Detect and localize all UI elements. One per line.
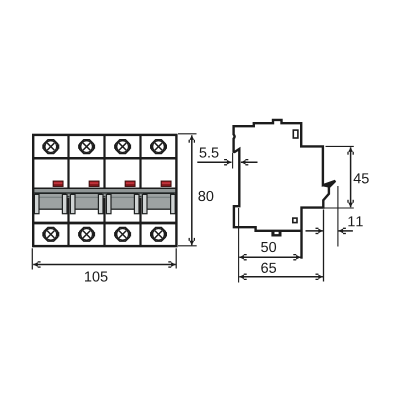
red indicator M3 [125, 181, 135, 186]
dimension 80 extension top [178, 133, 197, 135]
dimension 105 label [85, 272, 91, 282]
dimension 65 label [261, 263, 268, 273]
dimension 50 label [261, 242, 268, 252]
dimension 5.5 extension [232, 153, 234, 169]
front view outer box [33, 135, 176, 246]
post M3 right [134, 194, 139, 213]
module divider 3 [139, 134, 141, 246]
dimension 11 extension right [337, 186, 339, 247]
dimension 11 left line [306, 230, 323, 232]
dimension 50 line [239, 256, 300, 258]
top screw row divider [33, 157, 177, 160]
toggle handle M2 [72, 194, 102, 210]
screw M1 top [42, 140, 59, 154]
post M3 left [106, 194, 111, 213]
post M1 right [62, 194, 67, 213]
dimension 5.5 left line [197, 161, 231, 163]
toggle handle M4 [144, 194, 174, 210]
post M2 left [70, 194, 75, 213]
red indicator M4 [161, 181, 171, 186]
module divider 1 [67, 134, 69, 246]
red indicator M1 [53, 181, 63, 186]
dimension 105 extension left [31, 248, 33, 269]
dimension 80 extension bottom [178, 245, 197, 247]
screw M4 bottom [150, 228, 167, 242]
dimension 105 extension right [175, 248, 177, 268]
screw M1 bottom [42, 228, 59, 242]
post M2 right [98, 194, 103, 213]
post M1 left [34, 194, 39, 213]
dimension 11 right line [339, 230, 353, 232]
side profile outline [234, 120, 336, 231]
dimension 105 line [33, 264, 176, 266]
tie bar top edge [33, 187, 177, 189]
dimension 80 label [198, 191, 205, 201]
bottom clip tab [271, 230, 281, 236]
bar bottom shadow [34, 197, 177, 198]
post M4 left [142, 194, 147, 213]
screw M3 top [114, 140, 131, 154]
dimension 5.5 label [200, 148, 207, 158]
dimension 11 extension left [323, 210, 325, 282]
dimension 45 extension top [326, 145, 354, 147]
post M4 right [171, 194, 176, 213]
module divider 2 [103, 134, 105, 246]
dimension 5.5 right line [241, 161, 258, 163]
screw M2 top [78, 140, 95, 154]
red indicator M2 [89, 181, 99, 186]
tie bar dark band [34, 192, 177, 194]
dimension 80 line [191, 135, 193, 245]
screw M4 top [150, 140, 167, 154]
bottom screw row divider [33, 222, 177, 225]
toggle handle M3 [108, 194, 138, 210]
dimension 50 extension right [300, 232, 302, 259]
dimension 11 label [348, 216, 354, 226]
toggle handle M1 [36, 194, 66, 210]
dimension 45 label [354, 173, 361, 183]
dimension 45 line [350, 147, 352, 207]
dimension 50 extension left [238, 208, 240, 283]
screw M3 bottom [114, 228, 131, 242]
bottom clip tab slot [275, 232, 279, 234]
screw M2 bottom [78, 228, 95, 242]
dimension 45 extension bottom [325, 207, 354, 209]
dimension 65 line [239, 276, 323, 278]
handle tie bar [34, 188, 177, 196]
toggle top cover (no seam) [35, 194, 66, 195]
vent hole top [293, 130, 298, 138]
vent hole bottom [293, 218, 297, 223]
DIN clip hook beak [322, 181, 335, 188]
